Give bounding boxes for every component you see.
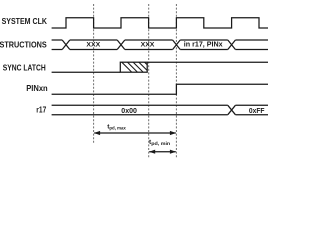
wire SYSTEM CLK waveform (52, 18, 268, 28)
node bus crossover 1 (62, 40, 70, 50)
svg-text:SYNC LATCH: SYNC LATCH (3, 63, 46, 72)
wire r17 bus bottom rail (52, 114, 268, 116)
svg-text:0xFF: 0xFF (249, 106, 265, 115)
wire INSTRUCTIONS bus top rail (52, 39, 268, 41)
svg-text:in r17, PINx: in r17, PINx (184, 40, 223, 49)
wire r17 bus top rail (52, 104, 268, 106)
tpd max dimension arrow line (94, 132, 176, 134)
wire SYNC LATCH low segment (52, 71, 121, 73)
dashed timing line at second clock falling edge (148, 4, 150, 158)
svg-text:tpd, max: tpd, max (107, 123, 126, 131)
svg-text:PINxn: PINxn (26, 84, 48, 93)
sync latch box hatching (122, 62, 155, 72)
svg-text:SYSTEM CLK: SYSTEM CLK (2, 17, 47, 26)
tpd max left arrowhead (94, 131, 100, 135)
svg-text:0x00: 0x00 (121, 106, 137, 115)
svg-text:XXX: XXX (141, 42, 156, 49)
wire PINxn waveform (52, 84, 268, 94)
tpd min dimension arrow line (149, 151, 176, 153)
dashed timing line at PINxn transition (175, 4, 177, 158)
tpd min left arrowhead (149, 150, 155, 154)
svg-text:XXX: XXX (86, 42, 101, 49)
node bus crossover 2 (117, 40, 125, 50)
sync latch metastability box (120, 62, 147, 72)
wire SYNC LATCH high segment (147, 61, 268, 63)
tpd min right arrowhead (170, 150, 176, 154)
svg-text:r17: r17 (36, 106, 46, 115)
svg-text:INSTRUCTIONS: INSTRUCTIONS (0, 41, 47, 50)
wire INSTRUCTIONS bus bottom rail (52, 49, 268, 51)
tpd max right arrowhead (170, 131, 176, 135)
node bus crossover 3 (173, 40, 181, 50)
node r17 bus crossover (228, 105, 236, 114)
node bus crossover 4 (228, 40, 236, 50)
dashed timing line at first clock falling edge (93, 4, 95, 144)
svg-text:tpd, min: tpd, min (149, 139, 170, 147)
